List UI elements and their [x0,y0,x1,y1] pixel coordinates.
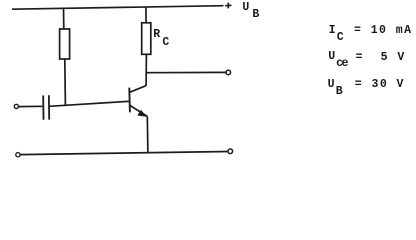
capacitor (input coupling) [43,95,49,120]
annotation line 1: IC = 10 mA [329,25,337,37]
bottom-right terminal [228,149,233,154]
wire top supply rail [12,6,224,10]
wire from top rail to base-bias resistor [63,8,65,29]
+ polarity symbol [225,3,231,9]
wire collector node to upper output terminal [146,71,226,73]
resistor (base bias) [60,29,70,59]
wire emitter down to bottom rail [146,116,149,152]
input terminal [14,104,18,108]
wire collector up to RC / output branch node [145,54,147,86]
wire capacitor to transistor base [49,101,129,106]
upper output terminal [226,70,231,75]
annotation line 3: UB = 30 V [328,79,336,91]
wire RC to top rail [145,7,147,23]
transistor Q1 (NPN) [129,86,147,117]
label RC value [153,29,161,41]
label + U_B supply [242,2,250,14]
wire from base-bias resistor down to base node [64,59,67,105]
resistor RC [142,23,151,55]
bottom-left terminal [16,153,20,157]
wire bottom rail [20,152,228,155]
wire input terminal to capacitor [19,105,43,107]
annotation line 2: UCE = 5 V [328,51,336,63]
